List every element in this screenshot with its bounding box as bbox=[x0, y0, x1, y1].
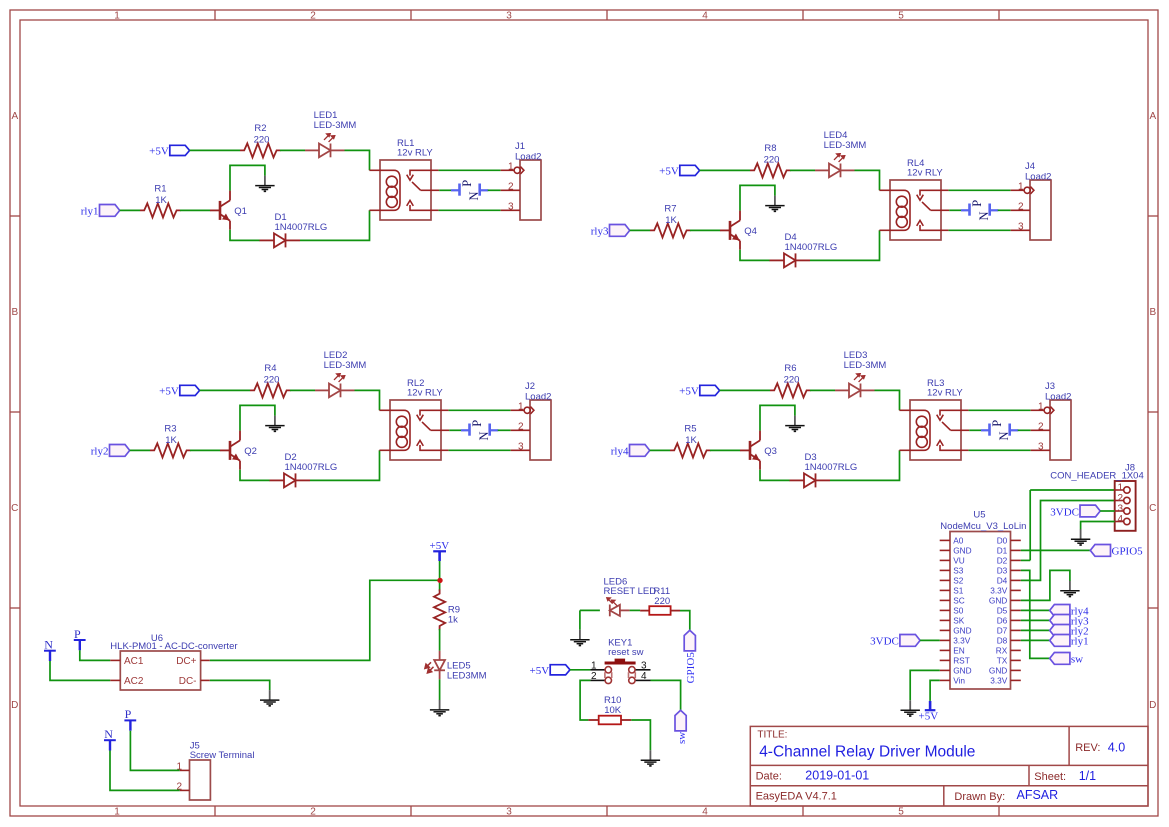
wire relay COM to P flag bbox=[949, 209, 961, 211]
wire R8 to LED4 bbox=[790, 169, 815, 171]
svg-text:2: 2 bbox=[310, 807, 316, 818]
svg-text:12v RLY: 12v RLY bbox=[397, 147, 433, 158]
connector J2 bbox=[530, 400, 551, 460]
P/N net flags bbox=[981, 424, 1018, 436]
P/N net flags bbox=[451, 184, 488, 196]
wire LED5 to ground bbox=[439, 679, 441, 700]
pin D0 (right 1) bbox=[1011, 539, 1021, 541]
svg-text:sw: sw bbox=[676, 732, 688, 744]
svg-text:3.3V: 3.3V bbox=[990, 586, 1008, 596]
svg-text:N: N bbox=[467, 191, 481, 200]
svg-text:EN: EN bbox=[953, 646, 965, 656]
svg-text:RST: RST bbox=[953, 656, 970, 666]
wire N flag to J pin2 bbox=[1018, 429, 1031, 431]
svg-text:1: 1 bbox=[591, 661, 597, 672]
svg-text:S0: S0 bbox=[953, 606, 964, 616]
wire emitter to diode bbox=[760, 470, 790, 481]
wire relay NO to J pin3 bbox=[439, 209, 501, 211]
svg-text:Screw Terminal: Screw Terminal bbox=[190, 750, 255, 761]
LED LED4 bbox=[815, 164, 855, 178]
wire R9 to LED5 bbox=[439, 629, 441, 651]
svg-text:D: D bbox=[11, 700, 18, 711]
wire U5 D6 to rly3 bbox=[1021, 619, 1050, 621]
svg-text:4.0: 4.0 bbox=[1108, 741, 1125, 755]
wire rly4 to Q3 base resistor bbox=[650, 449, 670, 451]
svg-text:rly2: rly2 bbox=[91, 446, 109, 458]
svg-text:3.3V: 3.3V bbox=[990, 676, 1008, 686]
pin S3 (left 4) bbox=[940, 569, 950, 571]
net flag GPIO5 (reset LED) bbox=[684, 630, 695, 651]
wire LED to relay coil+ bbox=[875, 390, 900, 410]
ground (LED6) bbox=[570, 630, 589, 646]
wire LED to relay coil+ bbox=[345, 150, 370, 170]
svg-text:D1: D1 bbox=[997, 546, 1008, 556]
svg-text:1N4007RLG: 1N4007RLG bbox=[285, 462, 338, 473]
pin GND (right 14) bbox=[1011, 669, 1021, 671]
P/N net flags bbox=[961, 204, 998, 216]
wire base bbox=[190, 449, 220, 451]
wire R10 to ground bbox=[631, 720, 650, 750]
wire rly1 to Q1 base resistor bbox=[120, 209, 140, 211]
svg-text:RX: RX bbox=[996, 646, 1008, 656]
svg-text:12v RLY: 12v RLY bbox=[407, 387, 443, 398]
svg-text:1k: 1k bbox=[448, 614, 458, 625]
svg-text:S2: S2 bbox=[953, 576, 964, 586]
ground (LED5) bbox=[430, 700, 449, 716]
svg-text:LED-3MM: LED-3MM bbox=[844, 360, 887, 371]
svg-text:220: 220 bbox=[654, 596, 670, 607]
ground bbox=[765, 196, 784, 212]
wire U5 D2 bbox=[1021, 559, 1030, 561]
net flag GPIO5 (U5 D1) bbox=[1090, 545, 1110, 557]
svg-text:3VDC: 3VDC bbox=[1050, 506, 1079, 518]
net flag rly2 (U5 D7) bbox=[1050, 625, 1070, 637]
wire emitter to diode bbox=[740, 250, 770, 261]
net flag N (AC input) bbox=[44, 651, 56, 661]
svg-text:P: P bbox=[460, 180, 474, 187]
diode D3 bbox=[790, 473, 831, 487]
svg-text:3: 3 bbox=[641, 661, 647, 672]
wire D2 to J8 pin1 (vertical) bbox=[1029, 490, 1031, 560]
wire N flag to J pin2 bbox=[498, 429, 511, 431]
ground bbox=[265, 416, 284, 432]
svg-text:D5: D5 bbox=[997, 606, 1008, 616]
wire N flag to J pin2 bbox=[998, 209, 1011, 211]
svg-text:3.3V: 3.3V bbox=[953, 636, 971, 646]
wire collector to ground bbox=[740, 185, 775, 210]
svg-text:+5V: +5V bbox=[919, 711, 939, 723]
pin TX (right 13) bbox=[1011, 659, 1021, 661]
net flag rly2 bbox=[110, 445, 130, 457]
LED LED1 bbox=[305, 144, 345, 158]
svg-text:+5V: +5V bbox=[659, 166, 679, 178]
ground (R10) bbox=[641, 750, 660, 766]
pin A0 (left 1) bbox=[940, 539, 950, 541]
svg-text:N: N bbox=[44, 638, 53, 652]
transistor Q1 bbox=[210, 191, 230, 230]
svg-text:D7: D7 bbox=[997, 626, 1008, 636]
wire diode to relay coil- bbox=[310, 450, 380, 480]
pin S0 (left 8) bbox=[940, 609, 950, 611]
net flag P (AC input) bbox=[74, 640, 86, 650]
svg-text:rly1: rly1 bbox=[1071, 636, 1089, 648]
wire LED to relay coil+ bbox=[355, 390, 380, 410]
net flag rly4 bbox=[630, 445, 650, 457]
pin Vin (left 15) bbox=[940, 679, 950, 681]
wire base bbox=[180, 209, 210, 211]
svg-text:N: N bbox=[104, 727, 113, 741]
svg-text:3VDC: 3VDC bbox=[870, 636, 899, 648]
junction node +5V rail bbox=[437, 578, 442, 583]
wire diode to relay coil- bbox=[810, 230, 880, 260]
pin D1 (right 2) bbox=[1011, 549, 1021, 551]
+5V power flag (rly2 channel) bbox=[180, 385, 200, 395]
wire relay NC to J pin1 bbox=[949, 189, 1011, 191]
pin GND (left 2) bbox=[940, 549, 950, 551]
wire +5V to R2 bbox=[190, 149, 240, 151]
svg-text:LED3MM: LED3MM bbox=[447, 671, 487, 682]
wire R4 to LED2 bbox=[290, 389, 315, 391]
wire U5 D1 to GPIO5 bbox=[1021, 549, 1091, 551]
wire +5V flag to junction bbox=[439, 561, 441, 580]
svg-text:1K: 1K bbox=[665, 215, 677, 226]
wire ground to LED6 bbox=[580, 609, 600, 611]
power flag +5V bbox=[433, 551, 446, 561]
wire junction to R9 bbox=[439, 583, 441, 591]
svg-text:GPIO5: GPIO5 bbox=[1112, 546, 1144, 558]
pin 4 bbox=[1115, 521, 1124, 523]
svg-text:2019-01-01: 2019-01-01 bbox=[805, 768, 869, 782]
svg-text:GND: GND bbox=[989, 596, 1007, 606]
LED LED3 bbox=[835, 384, 875, 398]
resistor R8 bbox=[750, 163, 791, 177]
+5V power flag (rly4 channel) bbox=[700, 385, 720, 395]
LED LED6 (pointing left) bbox=[610, 605, 630, 617]
pin D5 (right 8) bbox=[1011, 609, 1021, 611]
pin VU (left 3) bbox=[940, 559, 950, 561]
svg-text:4: 4 bbox=[702, 807, 708, 818]
svg-text:DC+: DC+ bbox=[176, 656, 196, 667]
svg-text:5: 5 bbox=[898, 807, 904, 818]
title block bbox=[750, 726, 1148, 806]
svg-text:3: 3 bbox=[506, 807, 512, 818]
ground (U5 GND) bbox=[901, 700, 920, 716]
svg-text:reset sw: reset sw bbox=[608, 647, 644, 658]
svg-text:LED-3MM: LED-3MM bbox=[314, 120, 357, 131]
svg-text:1K: 1K bbox=[165, 435, 177, 446]
svg-text:R8: R8 bbox=[764, 143, 776, 154]
pin SC (left 7) bbox=[940, 599, 950, 601]
svg-text:GND: GND bbox=[953, 626, 971, 636]
diode D2 bbox=[270, 473, 311, 487]
svg-text:AC2: AC2 bbox=[124, 676, 144, 687]
svg-text:RESET LED: RESET LED bbox=[604, 586, 657, 597]
wire base bbox=[690, 229, 720, 231]
connector J5 bbox=[190, 760, 211, 800]
svg-text:Load2: Load2 bbox=[1025, 171, 1051, 182]
svg-text:220: 220 bbox=[264, 375, 280, 386]
resistor R3 bbox=[150, 443, 191, 457]
svg-text:D0: D0 bbox=[997, 536, 1008, 546]
resistor R2 bbox=[240, 143, 281, 157]
svg-text:A: A bbox=[1149, 111, 1156, 122]
svg-text:220: 220 bbox=[764, 155, 780, 166]
svg-text:Load2: Load2 bbox=[515, 151, 541, 162]
svg-text:Load2: Load2 bbox=[1045, 391, 1071, 402]
push button KEY1 bbox=[590, 670, 650, 681]
transistor Q3 bbox=[740, 431, 760, 470]
svg-text:TX: TX bbox=[997, 656, 1008, 666]
wire relay COM to P flag bbox=[969, 429, 981, 431]
wire +5V to R4 bbox=[200, 389, 250, 391]
svg-text:D3: D3 bbox=[997, 566, 1008, 576]
pin 3.3V (right 15) bbox=[1011, 679, 1021, 681]
net flag rly3 bbox=[610, 225, 630, 237]
wire U5 GND jog to ground bbox=[1021, 570, 1070, 600]
wire rly2 to Q2 base resistor bbox=[130, 449, 150, 451]
svg-text:2: 2 bbox=[518, 421, 524, 432]
net flag rly1 bbox=[100, 205, 120, 217]
svg-text:R7: R7 bbox=[664, 203, 676, 214]
ground bbox=[255, 176, 274, 192]
net flag rly4 (U5 D5) bbox=[1050, 605, 1070, 617]
svg-text:+5V: +5V bbox=[430, 540, 450, 552]
svg-text:rly4: rly4 bbox=[611, 446, 629, 458]
svg-text:rly3: rly3 bbox=[591, 226, 609, 238]
wire collector to ground bbox=[760, 405, 795, 430]
svg-text:VU: VU bbox=[953, 556, 965, 566]
svg-text:N: N bbox=[997, 431, 1011, 440]
net flag sw (U5 D3) bbox=[1050, 653, 1070, 665]
svg-text:R5: R5 bbox=[684, 423, 696, 434]
wire KEY1 pin2 to R10 bbox=[580, 680, 590, 720]
svg-text:C: C bbox=[11, 503, 18, 514]
svg-text:GND: GND bbox=[953, 666, 971, 676]
svg-text:S3: S3 bbox=[953, 566, 964, 576]
svg-text:1N4007RLG: 1N4007RLG bbox=[275, 222, 328, 233]
wire relay NC to J pin1 bbox=[439, 169, 501, 171]
pin S1 (left 6) bbox=[940, 589, 950, 591]
svg-text:Q3: Q3 bbox=[764, 446, 777, 457]
svg-text:1: 1 bbox=[114, 807, 120, 818]
wire U5 D5 to rly4 bbox=[1021, 609, 1050, 611]
pin RST (left 13) bbox=[940, 659, 950, 661]
svg-text:U5: U5 bbox=[973, 510, 985, 521]
pin S2 (left 5) bbox=[940, 579, 950, 581]
svg-text:4: 4 bbox=[1117, 514, 1123, 525]
resistor R11 bbox=[640, 610, 649, 612]
wire collector to ground bbox=[240, 405, 275, 430]
wire LED6 to R11 bbox=[630, 609, 641, 611]
wire U5 D7 to rly2 bbox=[1021, 629, 1050, 631]
svg-text:1: 1 bbox=[1038, 401, 1044, 412]
svg-text:Vin: Vin bbox=[953, 676, 965, 686]
transistor Q2 bbox=[220, 431, 240, 470]
svg-text:12v RLY: 12v RLY bbox=[927, 387, 963, 398]
svg-text:4-Channel Relay Driver Module: 4-Channel Relay Driver Module bbox=[759, 744, 975, 761]
svg-text:Q2: Q2 bbox=[244, 446, 257, 457]
svg-text:P: P bbox=[125, 707, 132, 721]
wire DC- to ground bbox=[210, 680, 270, 690]
wire collector to ground bbox=[230, 165, 265, 190]
wire U5 Vin to +5V bbox=[930, 680, 940, 701]
relay RL3 bbox=[910, 400, 961, 460]
wire relay NO to J pin3 bbox=[969, 449, 1031, 451]
svg-text:R1: R1 bbox=[154, 183, 166, 194]
power flag +5V (Vin) bbox=[925, 701, 936, 710]
svg-text:2: 2 bbox=[1018, 201, 1024, 212]
resistor R10 bbox=[588, 719, 598, 721]
svg-text:2: 2 bbox=[1117, 493, 1123, 504]
svg-text:N: N bbox=[977, 211, 991, 220]
wire relay NC to J pin1 bbox=[449, 409, 511, 411]
pin 2 bbox=[1115, 500, 1124, 502]
pin 1 bbox=[1115, 489, 1124, 491]
svg-text:4: 4 bbox=[641, 671, 647, 682]
wire LED to relay coil+ bbox=[855, 170, 880, 190]
wire +5V to R6 bbox=[720, 389, 770, 391]
resistor R9 bbox=[434, 589, 445, 630]
net flag N (screw terminal) bbox=[104, 740, 116, 750]
svg-text:SC: SC bbox=[953, 596, 965, 606]
svg-text:2: 2 bbox=[508, 181, 514, 192]
wire LED6 to ground bbox=[579, 610, 581, 629]
svg-text:R6: R6 bbox=[784, 363, 796, 374]
wire KEY1 pin4 to sw flag bbox=[651, 680, 681, 710]
svg-text:AFSAR: AFSAR bbox=[1017, 788, 1059, 802]
NodeMcu module U5 bbox=[950, 532, 1011, 690]
svg-text:P: P bbox=[74, 627, 81, 641]
net flag P (screw terminal) bbox=[124, 720, 136, 730]
LED LED2 bbox=[315, 384, 355, 398]
svg-text:1N4007RLG: 1N4007RLG bbox=[805, 462, 858, 473]
svg-text:B: B bbox=[11, 307, 18, 318]
diode D4 bbox=[770, 253, 811, 267]
relay RL4 bbox=[890, 180, 941, 240]
pin D3 (right 4) bbox=[1011, 569, 1021, 571]
wire 3VDC to J8 pin3 bbox=[1100, 510, 1115, 512]
svg-text:10K: 10K bbox=[604, 705, 622, 716]
svg-text:sw: sw bbox=[1071, 654, 1083, 666]
svg-text:1N4007RLG: 1N4007RLG bbox=[785, 242, 838, 253]
net flag 3VDC (J8 pin3) bbox=[1080, 505, 1100, 517]
svg-text:D8: D8 bbox=[997, 636, 1008, 646]
transistor Q4 bbox=[720, 211, 740, 250]
svg-text:S1: S1 bbox=[953, 586, 964, 596]
pin 3.3V (right 6) bbox=[1011, 589, 1021, 591]
svg-text:1: 1 bbox=[1018, 181, 1024, 192]
wire R2 to LED1 bbox=[280, 149, 305, 151]
wire base bbox=[710, 449, 740, 451]
svg-text:220: 220 bbox=[784, 375, 800, 386]
pin D7 (right 10) bbox=[1011, 629, 1021, 631]
connector J1 bbox=[520, 160, 541, 220]
svg-text:CON_HEADER_1X04: CON_HEADER_1X04 bbox=[1050, 470, 1143, 481]
ground (J8 pin4) bbox=[1071, 529, 1090, 545]
wire U5 D8 to rly1 bbox=[1021, 639, 1050, 641]
svg-text:Sheet:: Sheet: bbox=[1034, 771, 1066, 783]
LED LED5 bbox=[434, 651, 445, 680]
svg-text:220: 220 bbox=[254, 135, 270, 146]
wire R11 to GPIO5 flag bbox=[680, 611, 690, 631]
svg-text:2: 2 bbox=[176, 781, 182, 792]
svg-text:Q4: Q4 bbox=[744, 226, 757, 237]
svg-text:LED-3MM: LED-3MM bbox=[324, 360, 367, 371]
ground (U5 right GND) bbox=[1060, 581, 1079, 597]
wire 3VDC to U5 3.3V bbox=[920, 639, 940, 641]
svg-text:NodeMcu_V3_LoLin: NodeMcu_V3_LoLin bbox=[940, 521, 1026, 532]
svg-text:Q1: Q1 bbox=[234, 206, 247, 217]
svg-text:1K: 1K bbox=[155, 195, 167, 206]
svg-text:1: 1 bbox=[518, 401, 524, 412]
wire +5V to R8 bbox=[700, 169, 750, 171]
svg-text:AC1: AC1 bbox=[124, 656, 144, 667]
wire DC+ to +5V rail bbox=[210, 580, 438, 660]
net flag 3VDC (U5 3.3V) bbox=[900, 635, 920, 647]
wire +5V to KEY1 pin1 bbox=[570, 669, 590, 671]
svg-text:1/1: 1/1 bbox=[1079, 769, 1096, 783]
svg-text:SK: SK bbox=[953, 616, 965, 626]
svg-text:A: A bbox=[11, 111, 18, 122]
P/N net flags bbox=[461, 424, 498, 436]
wire relay NO to J pin3 bbox=[449, 449, 511, 451]
wire P to J5 pin1 bbox=[130, 731, 179, 771]
svg-text:3: 3 bbox=[518, 441, 524, 452]
svg-text:3: 3 bbox=[1018, 221, 1024, 232]
pin D8 (right 11) bbox=[1011, 639, 1021, 641]
+5V power flag (rly1 channel) bbox=[170, 145, 190, 155]
svg-text:D: D bbox=[1149, 700, 1156, 711]
resistor R5 bbox=[670, 443, 711, 457]
pin EN (left 12) bbox=[940, 649, 950, 651]
svg-text:D2: D2 bbox=[997, 556, 1008, 566]
resistor R4 bbox=[250, 383, 291, 397]
svg-text:2: 2 bbox=[310, 11, 316, 22]
pin GND (left 10) bbox=[940, 629, 950, 631]
svg-text:GPIO5: GPIO5 bbox=[685, 652, 697, 684]
wire diode to relay coil- bbox=[830, 450, 900, 480]
svg-text:rly1: rly1 bbox=[81, 206, 99, 218]
wire N flag to J pin2 bbox=[488, 189, 501, 191]
wire U5 GND to ground bbox=[910, 670, 940, 700]
svg-text:DC-: DC- bbox=[179, 676, 197, 687]
pin GND (left 14) bbox=[940, 669, 950, 671]
svg-text:1: 1 bbox=[114, 11, 120, 22]
svg-text:+5V: +5V bbox=[530, 665, 550, 677]
svg-text:REV:: REV: bbox=[1075, 742, 1100, 754]
pin SK (left 9) bbox=[940, 619, 950, 621]
wire relay COM to P flag bbox=[449, 429, 461, 431]
wire U5 D3 to sw flag bbox=[1021, 570, 1050, 658]
svg-text:R2: R2 bbox=[254, 123, 266, 134]
pin GND (right 7) bbox=[1011, 599, 1021, 601]
wire P to AC1 bbox=[80, 650, 111, 660]
wire diode to relay coil- bbox=[300, 210, 370, 240]
svg-text:Drawn By:: Drawn By: bbox=[954, 791, 1005, 803]
pin D2 (right 3) bbox=[1011, 559, 1021, 561]
net flag rly3 (U5 D6) bbox=[1050, 615, 1070, 627]
pin 3 bbox=[1115, 510, 1124, 512]
svg-text:3: 3 bbox=[508, 201, 514, 212]
svg-text:4: 4 bbox=[702, 11, 708, 22]
pin 3.3V (left 11) bbox=[940, 639, 950, 641]
wire relay NO to J pin3 bbox=[949, 229, 1011, 231]
connector J3 bbox=[1050, 400, 1071, 460]
svg-text:3: 3 bbox=[506, 11, 512, 22]
svg-text:3: 3 bbox=[1117, 504, 1123, 515]
+5V power flag bbox=[550, 665, 570, 675]
svg-text:A0: A0 bbox=[953, 536, 964, 546]
